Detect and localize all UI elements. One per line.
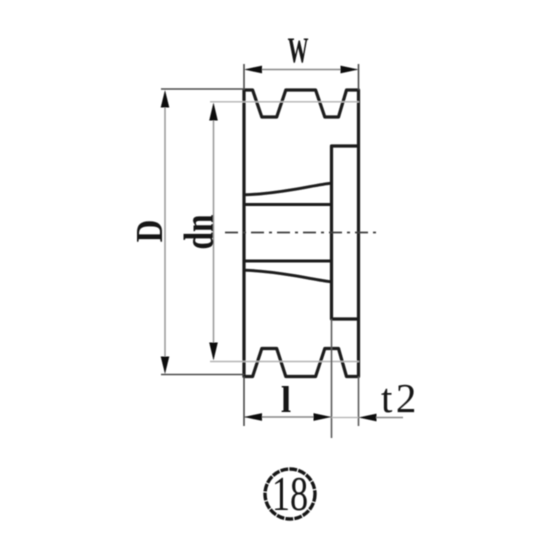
dimension l: right extension line (flange left edge extended down)	[331, 319, 333, 438]
dimension D: bottom extension line	[161, 374, 244, 376]
dimension t2: arrowhead pointing left	[359, 414, 377, 422]
svg-text:l: l	[281, 380, 291, 421]
dimension W: extension line right (right face extended up)	[358, 64, 360, 90]
dimension dn: top extension line (faint)	[210, 101, 359, 103]
dimension dn: bottom arrowhead	[209, 343, 218, 361]
svg-text:t2: t2	[381, 375, 420, 421]
dimension D: dimension line	[164, 92, 166, 372]
pulley outline (rim cross-section with two V-grooves top and bottom)	[244, 90, 359, 377]
dimension D: bottom arrowhead	[161, 357, 170, 375]
dimension W: left arrowhead	[244, 66, 262, 74]
dimension l: right arrowhead	[314, 413, 332, 421]
dimension W: right arrowhead	[341, 66, 359, 74]
svg-text:18: 18	[272, 468, 308, 521]
dimension t2: right extension line (right face extended down)	[358, 377, 360, 427]
bushing flange rectangle	[332, 146, 359, 319]
dimension dn: bottom extension line (faint)	[210, 361, 359, 363]
dimension t2: dimension line between extension lines	[332, 417, 359, 419]
dimension t2: leader tail line	[376, 417, 403, 419]
dimension W: extension line left (left face extended up)	[243, 64, 245, 90]
bore bottom line	[244, 260, 332, 263]
svg-text:W: W	[288, 31, 309, 70]
taper top line	[244, 183, 331, 195]
dimension l: left extension line (left face extended down)	[243, 377, 245, 427]
center line (dash-dot axis)	[225, 232, 380, 234]
dimension D: top extension line	[161, 88, 244, 90]
dimension D: top arrowhead	[161, 90, 170, 108]
dimension l: dimension line	[245, 416, 330, 418]
dimension dn: top arrowhead	[209, 103, 218, 121]
balloon circle for item number	[265, 469, 315, 519]
dimension dn: dimension line	[213, 104, 215, 359]
dimension l: left arrowhead	[244, 413, 262, 421]
dimension W: dimension line	[246, 69, 357, 71]
svg-text:dn: dn	[177, 214, 223, 249]
taper bottom line	[244, 270, 331, 282]
svg-text:D: D	[128, 220, 171, 243]
bore top line	[244, 203, 332, 206]
